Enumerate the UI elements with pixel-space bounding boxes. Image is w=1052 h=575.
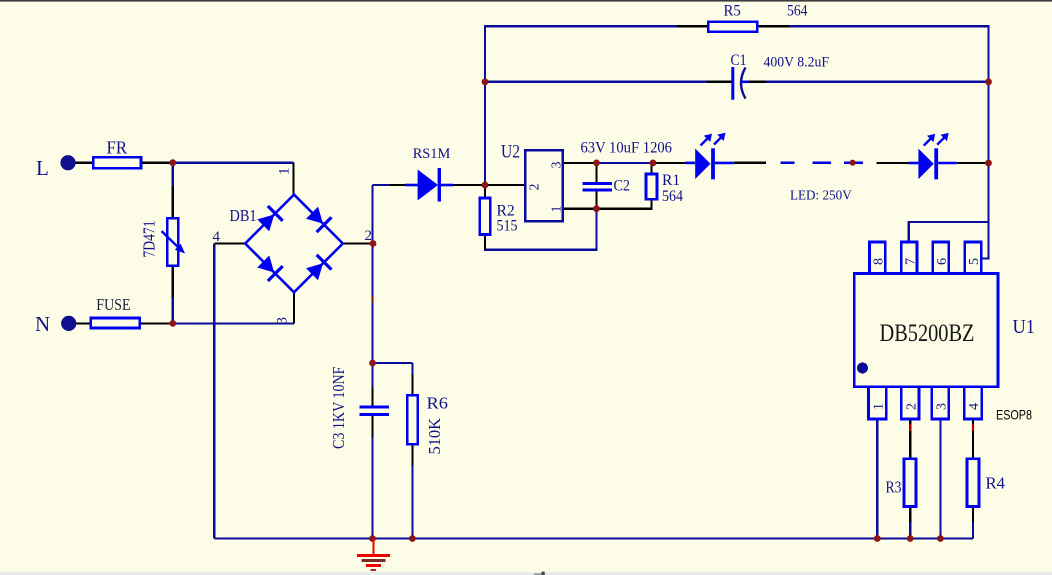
svg-text:N: N <box>35 312 50 336</box>
svg-text:1: 1 <box>277 168 293 176</box>
svg-text:LED: 250V: LED: 250V <box>790 189 852 204</box>
svg-text:1: 1 <box>550 206 565 213</box>
LED D2 <box>909 133 957 180</box>
svg-text:8: 8 <box>872 258 887 265</box>
resistor R5 <box>708 22 757 32</box>
bridge diode bottom-left <box>256 254 283 281</box>
pin: FR right <box>141 162 173 164</box>
junction C2 bottom <box>593 205 600 212</box>
svg-text:R4: R4 <box>986 474 1006 493</box>
svg-text:DB5200BZ: DB5200BZ <box>880 320 975 347</box>
wire: U1 pin3 down to rail <box>939 419 941 539</box>
svg-text:3: 3 <box>550 162 565 169</box>
wire: R4 bottom navy <box>972 522 974 539</box>
red tick on wire x=372.5 <box>371 296 373 303</box>
pin: C3 top <box>371 388 373 407</box>
junction LED out <box>985 160 992 167</box>
wire: varistor bottom stub (navy part) <box>172 298 174 324</box>
junction LED string middle <box>850 160 856 166</box>
wire: R2 bottom loop <box>485 209 597 250</box>
pin: C1 right <box>749 81 766 83</box>
pin: LED1 left black <box>653 162 686 164</box>
pin: R2 bottom <box>484 235 486 250</box>
pin: bridge pin2 stub <box>343 242 373 244</box>
svg-text:R6: R6 <box>427 394 449 413</box>
svg-text:3: 3 <box>275 317 291 325</box>
svg-text:3: 3 <box>935 403 950 410</box>
pin: C3 bottom <box>371 416 373 437</box>
pin: U1 pin2 to R3 <box>909 419 911 459</box>
junction rail R6 <box>409 535 416 542</box>
pin: bridge pin1 stub <box>292 163 294 195</box>
svg-text:2: 2 <box>528 184 543 191</box>
ground symbol <box>357 539 390 571</box>
junction at FUSE/varistor <box>169 320 176 327</box>
svg-text:C1: C1 <box>731 52 747 69</box>
wire: top loop horizontal (R5 net) <box>485 26 989 185</box>
wire: RS1M row left <box>373 184 391 186</box>
svg-text:7: 7 <box>903 258 918 265</box>
wire: LED out column and pin7/pin5 branch <box>981 163 988 258</box>
varistor RV 7D471 body <box>167 218 178 266</box>
bridge diode top-left <box>256 206 283 233</box>
diode RS1M <box>405 168 453 202</box>
wire: varistor top stub (navy part) <box>172 163 174 187</box>
pin: R6 bottom <box>411 444 413 465</box>
svg-text:U2: U2 <box>501 142 520 163</box>
resistor R6 <box>407 395 417 444</box>
red tick U1 pin4 <box>972 424 974 431</box>
pin: FUSE right <box>140 322 173 324</box>
pin: U2 pin1 <box>563 208 597 210</box>
U1 pin1 dot indicator <box>857 363 868 374</box>
svg-text:L: L <box>36 156 49 180</box>
wire: C3 bottom navy to rail <box>371 437 373 539</box>
pin: LED2 right black <box>957 162 989 164</box>
pin: R3 bottom black <box>909 507 911 523</box>
junction rail R3 <box>907 535 914 542</box>
svg-text:510K: 510K <box>425 418 444 455</box>
resistor R1 <box>646 174 657 199</box>
pin: U2 pin3 <box>563 162 597 164</box>
svg-text:400V 8.2uF: 400V 8.2uF <box>764 55 830 71</box>
resistor FUSE <box>91 318 140 328</box>
U1 pin 1 box <box>869 387 887 419</box>
pin: R4 bottom black <box>972 507 974 523</box>
pin: RS1M left <box>390 184 405 186</box>
varistor arrow <box>162 231 185 253</box>
pin: varistor top <box>172 187 174 219</box>
wire: dashed LED string <box>780 161 863 164</box>
red tick U1 pin2 <box>909 424 911 431</box>
pin: bridge pin3 stub <box>293 292 295 323</box>
U1 pin 3 box <box>932 387 949 419</box>
wire: R3 bottom navy <box>909 522 911 539</box>
wire: x=372.5 column lower <box>371 303 373 364</box>
resistor R4 <box>967 459 979 507</box>
pin: U1 pin4 to R4 <box>972 419 974 459</box>
junction at C3/R6 branch <box>369 360 376 367</box>
wire: C3 top navy part <box>371 363 373 388</box>
junction rail U1 pin1 <box>874 535 881 542</box>
pin: U2 pin2 <box>485 184 525 186</box>
pin: R2 top <box>484 185 486 198</box>
IC U1 body DB5200BZ <box>854 274 998 387</box>
junction top-right C1 <box>985 78 992 85</box>
junction rail C3 <box>369 535 376 542</box>
wire: C1 row right <box>766 81 989 83</box>
resistor R2 <box>480 198 491 235</box>
svg-text:C2: C2 <box>614 178 631 195</box>
wire: R6 branch horizontal <box>373 362 413 364</box>
IC U2 box <box>525 150 562 221</box>
pin: R5 left <box>677 25 709 27</box>
U1 pin 2 box <box>901 387 919 419</box>
wire: C1 row left <box>485 81 707 83</box>
wire: L row from junction to bridge pin1 <box>173 162 294 164</box>
pin: LED1 right black <box>734 162 766 164</box>
svg-text:R1: R1 <box>662 172 680 189</box>
U1 pin 7 box <box>901 242 917 274</box>
pin: R6 top <box>411 374 413 395</box>
wire: R6 bottom navy to rail <box>411 465 413 539</box>
svg-text:ESOP8: ESOP8 <box>996 407 1032 423</box>
wire: right vertical to LED out <box>987 82 989 163</box>
junction at FR/varistor <box>169 159 176 166</box>
pin: R1 top <box>650 163 652 174</box>
bridge diode bottom-right <box>305 255 332 282</box>
svg-text:6: 6 <box>935 258 950 265</box>
LED D1 <box>686 133 734 180</box>
bridge DB1 diamond <box>245 195 343 293</box>
wire: bridge pin4 down to ground rail <box>213 244 215 539</box>
window top edge line <box>0 0 1052 2</box>
wire: pin7 branch <box>909 222 989 242</box>
pin: LED2 left black <box>876 162 909 164</box>
resistor R3 <box>904 459 916 507</box>
junction R1 top <box>650 160 657 167</box>
pin: RS1M right <box>453 184 485 186</box>
U1 pin 5 box <box>965 242 981 274</box>
svg-text:564: 564 <box>662 188 683 205</box>
pin: C2 bottom <box>595 190 597 209</box>
pin: R5 right <box>757 25 789 27</box>
svg-text:DB1: DB1 <box>230 206 257 225</box>
terminal N <box>61 316 76 331</box>
U1 pin 8 box <box>870 242 886 274</box>
svg-text:515: 515 <box>497 218 518 235</box>
sheet bottom hatch strip <box>0 572 1052 575</box>
svg-text:7D471: 7D471 <box>140 221 159 258</box>
junction at bridge pin2 <box>370 240 377 247</box>
U1 pin 4 box <box>964 387 982 419</box>
svg-text:FUSE: FUSE <box>96 295 130 314</box>
svg-text:63V 10uF 1206: 63V 10uF 1206 <box>581 140 673 157</box>
svg-text:1: 1 <box>872 403 887 410</box>
svg-text:R5: R5 <box>724 3 742 20</box>
svg-text:5: 5 <box>967 258 982 265</box>
wire: R6 top navy stub <box>411 363 413 374</box>
svg-text:4: 4 <box>967 403 982 410</box>
capacitor C2 plates <box>583 184 613 191</box>
bridge diode top-right <box>305 205 332 232</box>
resistor FR <box>93 157 141 168</box>
svg-text:FR: FR <box>107 138 128 158</box>
wire: bridge pin2 vertical column x=372.5 upper <box>371 185 373 296</box>
svg-text:R3: R3 <box>886 478 902 497</box>
svg-text:564: 564 <box>787 3 808 20</box>
pin: C2 top <box>595 163 597 184</box>
U1 pin 6 box <box>933 242 949 274</box>
junction RS1M/U2/R2 <box>482 182 489 189</box>
svg-text:2: 2 <box>365 228 373 244</box>
capacitor C3 plates <box>360 407 390 415</box>
terminal L <box>60 155 75 170</box>
wire: U2 pin3 net between junctions <box>597 162 654 164</box>
capacitor C1 plates <box>733 67 749 100</box>
wire: ground rail <box>214 537 973 539</box>
junction U2 pin3/C2 <box>593 160 600 167</box>
junction top-left R5/C1 <box>482 78 489 85</box>
svg-text:U1: U1 <box>1013 316 1036 338</box>
svg-text:2: 2 <box>904 403 919 410</box>
svg-text:C3 1KV 10NF: C3 1KV 10NF <box>329 367 348 450</box>
pin: varistor bottom <box>172 266 174 298</box>
wire: N row from junction to bridge pin3 <box>173 322 294 324</box>
pin: L terminal to FR <box>74 162 93 164</box>
svg-text:RS1M: RS1M <box>413 146 451 162</box>
wire: U1 pin1 down to rail <box>876 419 878 539</box>
pin: C1 left <box>707 81 731 83</box>
pin: R1 bottom leads <box>597 199 652 208</box>
svg-text:4: 4 <box>213 229 221 245</box>
pin: N terminal to FUSE <box>74 322 91 324</box>
junction rail U1 pin3 <box>937 535 944 542</box>
pin: bridge pin4 stub <box>214 242 245 244</box>
